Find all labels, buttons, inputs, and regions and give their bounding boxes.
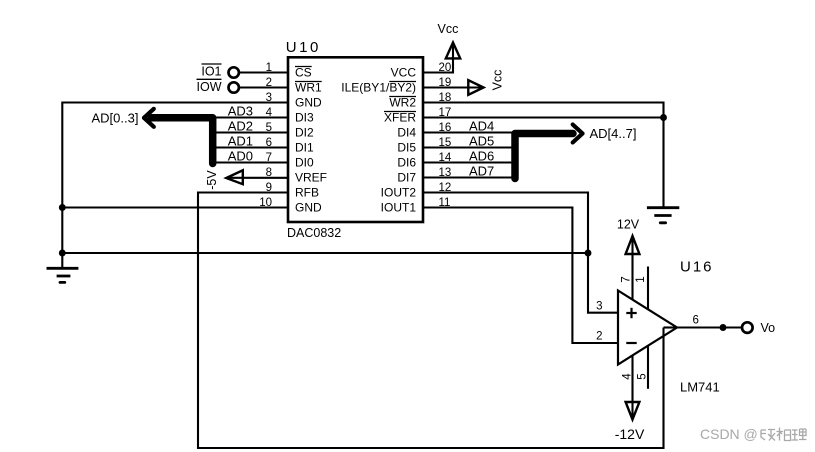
op-amp pin7 number <box>621 276 633 282</box>
U10 value DAC0832 <box>287 226 341 240</box>
overline BY2) <box>389 81 416 83</box>
wire pin4 DI3 stub <box>216 116 288 118</box>
wire pin10 GND stub <box>62 206 288 208</box>
svg-text:AD1: AD1 <box>228 133 253 148</box>
U16 value LM741 <box>680 380 720 395</box>
svg-text:U10: U10 <box>286 39 321 56</box>
wire pin14 DI6 stub <box>423 161 512 163</box>
pin number 3 <box>266 92 272 104</box>
op-amp - input mark <box>626 342 636 344</box>
wire pin18 WR2 to right rail <box>423 103 664 208</box>
pin number 17 <box>439 107 452 119</box>
svg-text:19: 19 <box>439 77 452 89</box>
svg-text:5: 5 <box>266 122 272 134</box>
svg-text:IO1: IO1 <box>201 65 221 79</box>
wire pin12 IOUT2 to op-amp + input <box>423 193 618 313</box>
svg-text:VREF: VREF <box>295 171 327 185</box>
svg-text:Vcc: Vcc <box>438 22 459 36</box>
svg-text:3: 3 <box>266 92 272 104</box>
U10 left pin names <box>295 66 327 215</box>
svg-text:GND: GND <box>295 201 322 215</box>
power label Vcc top <box>438 22 459 36</box>
node IO1 label <box>201 65 221 79</box>
overline WR2 <box>389 96 416 98</box>
wire pin17 XFER to right rail <box>423 116 664 118</box>
pin number 5 <box>266 122 272 134</box>
svg-text:IOUT2: IOUT2 <box>381 186 417 200</box>
ground symbol left <box>47 268 79 282</box>
power label Vcc rotated <box>491 70 505 91</box>
svg-text:8: 8 <box>266 167 272 179</box>
wire ground rail y=252 <box>62 252 588 254</box>
wire pin5 DI2 stub <box>216 131 288 133</box>
bus AD[0..3] <box>151 118 213 164</box>
overline XFER <box>384 111 416 113</box>
svg-text:7: 7 <box>621 276 633 282</box>
power label 12V <box>617 218 640 232</box>
svg-text:2: 2 <box>266 77 272 89</box>
net label AD2 <box>228 118 253 133</box>
pin number 20 <box>439 62 452 74</box>
svg-text:DAC0832: DAC0832 <box>287 226 341 240</box>
svg-text:-5V: -5V <box>205 170 219 190</box>
svg-text:15: 15 <box>439 137 452 149</box>
svg-text:AD5: AD5 <box>469 133 494 148</box>
op-amp pin1 number <box>635 276 647 282</box>
terminal circle IOW <box>229 82 239 92</box>
wire pin9 RFB feedback loop to op-amp output <box>198 193 664 449</box>
svg-text:AD3: AD3 <box>228 103 253 118</box>
overline WR1 <box>295 81 322 83</box>
svg-text:U16: U16 <box>680 259 714 276</box>
junction dot output <box>720 324 727 331</box>
ground symbol right <box>647 208 679 223</box>
junction dot ground rail / IOUT2 <box>585 250 592 257</box>
net label AD0 <box>228 148 253 163</box>
net label AD5 <box>469 133 494 148</box>
svg-text:AD4: AD4 <box>469 118 494 133</box>
node IOW label <box>197 80 222 94</box>
svg-text:AD7: AD7 <box>469 163 494 178</box>
overline CS <box>295 66 312 68</box>
svg-text:9: 9 <box>266 182 272 194</box>
svg-text:ILE(BY1/BY2): ILE(BY1/BY2) <box>341 81 416 95</box>
IC U10 body <box>288 57 423 222</box>
op-amp + input mark <box>626 308 636 318</box>
U16 refdes <box>680 259 714 276</box>
net label AD[0..3] <box>92 110 139 125</box>
pin number 7 <box>266 152 272 164</box>
bus AD[4..7] <box>515 134 573 179</box>
node Vo label <box>761 321 776 335</box>
pin number 13 <box>439 167 452 179</box>
op-amp pin4 number <box>622 373 634 380</box>
pin number 16 <box>439 122 452 134</box>
svg-text:DI0: DI0 <box>295 156 314 170</box>
net label AD7 <box>469 163 494 178</box>
op-amp U16 pin2 label <box>596 331 602 343</box>
svg-text:AD2: AD2 <box>228 118 253 133</box>
pin number 11 <box>439 197 451 209</box>
op-amp pin1 stub <box>647 267 649 311</box>
svg-text:XFER: XFER <box>384 111 416 125</box>
svg-text:DI6: DI6 <box>397 156 416 170</box>
watermark CJK glyph zhang <box>761 430 775 441</box>
svg-text:DI5: DI5 <box>397 141 416 155</box>
svg-text:4: 4 <box>622 373 634 380</box>
svg-text:1: 1 <box>266 62 272 74</box>
pin number 15 <box>439 137 452 149</box>
power terminal -5V on pin8 VREF <box>227 177 288 179</box>
svg-text:16: 16 <box>439 122 452 134</box>
svg-text:11: 11 <box>439 197 451 209</box>
wire pin1 CS stub <box>239 71 288 73</box>
pin number 19 <box>439 77 452 89</box>
svg-text:1: 1 <box>635 276 647 282</box>
pin number 12 <box>439 182 452 194</box>
op-amp U16 pin3 label <box>596 301 602 313</box>
power 12V arrow and wire to op-amp pin7 <box>631 237 633 300</box>
svg-text:7: 7 <box>266 152 272 164</box>
svg-text:DI2: DI2 <box>295 126 314 140</box>
wire pin19 ILE stub <box>423 86 483 88</box>
pin number 2 <box>266 77 272 89</box>
power symbol Vcc right arrow <box>468 80 483 95</box>
pin number 8 <box>266 167 272 179</box>
svg-text:17: 17 <box>439 107 452 119</box>
op-amp pin6 number <box>693 314 699 326</box>
svg-text:AD[0..3]: AD[0..3] <box>92 110 139 125</box>
watermark CJK glyph li <box>792 429 807 440</box>
watermark CJK glyph bai <box>777 428 791 441</box>
terminal circle IO1 <box>229 67 239 77</box>
svg-text:20: 20 <box>439 62 452 74</box>
svg-text:AD[4..7]: AD[4..7] <box>590 126 637 141</box>
pin number 9 <box>266 182 272 194</box>
power -12V arrow and wire from op-amp pin4 <box>631 356 633 419</box>
svg-text:10: 10 <box>259 197 272 209</box>
net label AD6 <box>469 148 494 163</box>
svg-text:WR1: WR1 <box>295 81 322 95</box>
svg-text:-12V: -12V <box>615 426 645 442</box>
svg-text:12: 12 <box>439 182 452 194</box>
svg-text:6: 6 <box>693 314 699 326</box>
wire pin3 GND to left rail <box>62 103 288 269</box>
junction dot left rail pin10 <box>59 204 66 211</box>
junction dot pin17/18 rail <box>660 114 667 121</box>
net label AD4 <box>469 118 494 133</box>
svg-text:DI7: DI7 <box>397 171 416 185</box>
wire pin15 DI5 stub <box>423 146 512 148</box>
junction dot left rail ground wire <box>59 250 66 257</box>
pin number 10 <box>259 197 272 209</box>
wire op-amp output <box>677 326 742 328</box>
svg-text:VCC: VCC <box>391 66 417 80</box>
svg-text:DI1: DI1 <box>295 141 314 155</box>
svg-text:AD0: AD0 <box>228 148 253 163</box>
wire pin16 DI4 stub <box>423 131 512 133</box>
net label AD[4..7] <box>590 126 637 141</box>
svg-text:Vo: Vo <box>761 321 776 335</box>
pin number 18 <box>439 92 452 104</box>
svg-text:IOW: IOW <box>197 80 222 94</box>
power symbol Vcc up arrow <box>446 43 460 59</box>
svg-text:2: 2 <box>596 331 602 343</box>
svg-text:5: 5 <box>637 373 649 379</box>
pin number 14 <box>439 152 452 164</box>
op-amp pin5 number <box>637 373 649 379</box>
net label AD3 <box>228 103 253 118</box>
wire pin13 DI7 stub <box>423 176 512 178</box>
wire pin11 IOUT1 to op-amp - input <box>423 208 618 344</box>
wire pin6 DI1 stub <box>216 146 288 148</box>
wire pin7 DI0 stub <box>216 161 288 163</box>
svg-text:DI4: DI4 <box>397 126 416 140</box>
svg-text:WR2: WR2 <box>389 96 416 110</box>
svg-text:LM741: LM741 <box>680 380 720 395</box>
svg-text:GND: GND <box>295 96 322 110</box>
U10 refdes <box>286 39 321 56</box>
svg-text:Vcc: Vcc <box>491 70 505 91</box>
U10 right pin names <box>341 66 416 215</box>
svg-text:4: 4 <box>266 107 273 119</box>
svg-text:18: 18 <box>439 92 452 104</box>
svg-text:CSDN @: CSDN @ <box>700 426 758 442</box>
terminal circle Vo <box>742 322 753 333</box>
svg-text:AD6: AD6 <box>469 148 494 163</box>
svg-text:3: 3 <box>596 301 602 313</box>
wire pin2 WR1 stub <box>239 86 288 88</box>
svg-text:12V: 12V <box>617 218 640 232</box>
pin number 4 <box>266 107 273 119</box>
pin number 1 <box>266 62 272 74</box>
svg-text:RFB: RFB <box>295 186 319 200</box>
net label AD1 <box>228 133 253 148</box>
power label -12V <box>615 426 645 442</box>
wire feedback into output node <box>664 326 678 328</box>
watermark CSDN <box>700 426 758 442</box>
wire pin20 VCC to power <box>423 44 453 73</box>
op-amp pin5 stub <box>647 346 649 389</box>
op-amp U16 triangle <box>618 291 677 365</box>
svg-text:14: 14 <box>439 152 452 164</box>
pin number 6 <box>266 137 272 149</box>
svg-text:6: 6 <box>266 137 272 149</box>
svg-text:13: 13 <box>439 167 452 179</box>
svg-text:CS: CS <box>295 66 312 80</box>
svg-text:DI3: DI3 <box>295 111 314 125</box>
svg-text:IOUT1: IOUT1 <box>381 201 417 215</box>
